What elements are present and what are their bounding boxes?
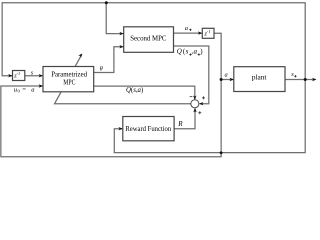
arrowhead into left z^-1 xyxy=(8,74,12,77)
svg-text:plant: plant xyxy=(252,72,267,81)
arrowhead s into Parametrized MPC xyxy=(39,74,43,77)
arrowhead a into plant xyxy=(230,78,234,81)
label: minus sign at summing junction top input xyxy=(190,96,193,98)
arrowhead R into summing junction (pointing up) xyxy=(193,108,196,112)
node: junction where action joins reward input line xyxy=(220,151,223,154)
wire: action a into plant xyxy=(221,79,233,81)
arrowhead TD update on diagonal (pointing up-right) xyxy=(78,54,82,58)
block R1: Reward Function xyxy=(123,117,174,141)
svg-text:a: a xyxy=(194,48,198,56)
wire: a+ from Second MPC to z^-1 (top) xyxy=(174,32,202,34)
arrowhead s+ output right xyxy=(312,78,316,81)
wire: Q(s+,a+) from Second MPC down to summing junction right input xyxy=(174,46,209,104)
block U2: Second MPC xyxy=(124,27,174,53)
arrowhead Q(s+,a+) into summing junction (pointing left) xyxy=(199,102,203,105)
svg-text:a: a xyxy=(225,71,228,78)
svg-text:a: a xyxy=(185,25,188,32)
wire: Q(s,a) from Parametrized MPC to summing junction top input xyxy=(94,86,195,99)
svg-text:Q: Q xyxy=(177,48,182,56)
wire: R from Reward Function up into summing junction bottom input xyxy=(174,109,195,129)
block U1: Parametrized MPC xyxy=(43,67,94,92)
node: action a junction at plant input xyxy=(220,78,223,81)
wire: s+ plant output to the right edge xyxy=(285,79,315,81)
summing junction S1 xyxy=(191,100,199,108)
label: plus sign at summing junction bottom input xyxy=(198,111,201,114)
label: plus sign at summing junction right input xyxy=(202,96,205,99)
wire: theta from Parametrized MPC to Second MPC second input xyxy=(94,47,123,73)
svg-text:R: R xyxy=(177,120,183,128)
svg-text:s: s xyxy=(186,48,189,56)
arrowhead Q(s,a) into summing junction (pointing down) xyxy=(193,96,196,100)
arrowhead theta into Second MPC xyxy=(119,45,123,48)
svg-text:Second MPC: Second MPC xyxy=(130,34,166,43)
arrowhead u0=a into Parametrized MPC xyxy=(39,84,43,87)
wire: u0=a action loop from Parametrized MPC input around bottom up to z^-1 (top) output xyxy=(1,33,221,156)
block Z2: top z^-1 delay xyxy=(202,28,214,38)
svg-text:): ) xyxy=(200,48,203,56)
arrowhead into Reward Function xyxy=(119,127,123,130)
block P1: plant xyxy=(234,67,285,92)
svg-text:Reward Function: Reward Function xyxy=(125,124,171,133)
svg-text:θ: θ xyxy=(100,66,103,73)
svg-text:Q(s,a): Q(s,a) xyxy=(126,87,143,94)
wire: TD error output of summing junction, diagonal update arrow through Parametrized MPC xyxy=(55,54,191,103)
wire: state tap from top line down into Second MPC first input xyxy=(106,3,122,34)
svg-text:0: 0 xyxy=(18,89,21,94)
block Z1: left z^-1 delay xyxy=(13,71,25,81)
svg-text:MPC: MPC xyxy=(63,78,75,87)
wire: s+ feedback top loop into left z^-1, down right side to reward input line xyxy=(2,3,305,153)
wire: z^-1 (left) output s into Parametrized MPC xyxy=(25,75,42,77)
svg-text:s: s xyxy=(291,71,294,78)
arrowhead a+ into top z^-1 xyxy=(198,31,202,34)
node: s+ junction at plant output xyxy=(304,78,307,81)
node: junction on top line feeding Second MPC xyxy=(105,1,108,4)
svg-text:=: = xyxy=(22,86,26,93)
arrowhead state into Second MPC xyxy=(119,32,123,35)
svg-text:a: a xyxy=(31,86,35,93)
